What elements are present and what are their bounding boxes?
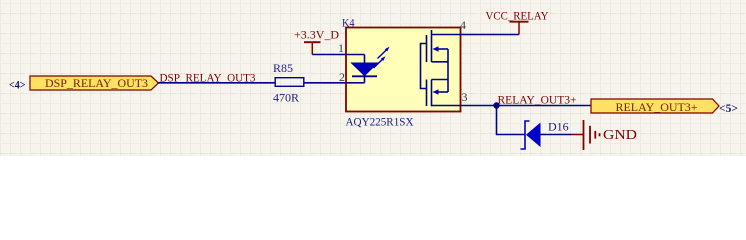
part number AQY225R1SX	[346, 115, 414, 129]
power port VCC_RELAY bar symbol	[510, 22, 529, 35]
junction node RELAY_OUT3+	[493, 102, 499, 108]
svg-text:1: 1	[338, 41, 344, 55]
ground label GND	[603, 128, 637, 143]
wire junction down to D16	[497, 106, 526, 135]
MOSFET top (output FET 1)	[427, 30, 449, 62]
svg-text:2: 2	[339, 70, 345, 84]
svg-text:+3.3V_D: +3.3V_D	[294, 28, 339, 42]
svg-text:RELAY_OUT3+: RELAY_OUT3+	[498, 93, 577, 107]
svg-text:3: 3	[462, 90, 468, 104]
svg-text:<5>: <5>	[719, 101, 738, 115]
pin number 2	[339, 70, 345, 84]
pin number 1	[338, 41, 344, 55]
node <4> cross-reference label	[9, 78, 26, 92]
ground symbol GND (bar style)	[584, 120, 600, 150]
wire R85 to K4 pin 2	[304, 82, 346, 84]
power port VCC_RELAY label	[486, 9, 549, 23]
resistor R85 value 470R	[273, 91, 299, 105]
LED emission arrows	[374, 47, 390, 68]
MOSFET bottom (output FET 2)	[427, 80, 449, 107]
gate bus bracket	[421, 44, 427, 89]
svg-text:R85: R85	[273, 61, 293, 75]
designator K4	[342, 16, 355, 30]
net label RELAY_OUT3+	[498, 93, 577, 107]
node <5> cross-reference label	[719, 101, 738, 115]
svg-text:AQY225R1SX: AQY225R1SX	[346, 115, 414, 129]
wire junction to right port	[497, 105, 592, 107]
resistor R85 designator	[273, 61, 293, 75]
net label DSP_RELAY_OUT3	[160, 71, 256, 85]
pin number 3	[462, 90, 468, 104]
designator D16	[548, 120, 569, 134]
LED D (input side of K4)	[346, 55, 378, 83]
pin 4 wire (K4 to VCC_RELAY)	[432, 34, 520, 36]
svg-text:<4>: <4>	[9, 78, 26, 92]
diode D16	[521, 121, 541, 149]
port DSP_RELAY_OUT3 (left harness port)	[30, 76, 159, 90]
background grid	[0, 0, 746, 156]
svg-text:K4: K4	[342, 16, 355, 30]
svg-text:4: 4	[460, 18, 466, 32]
common source column	[447, 49, 449, 92]
wire +3.3V_D to K4 pin 1	[312, 54, 346, 56]
svg-text:470R: 470R	[273, 91, 299, 105]
svg-text:DSP_RELAY_OUT3: DSP_RELAY_OUT3	[45, 76, 148, 90]
pin 3 wire (K4 to junction)	[432, 105, 497, 107]
svg-text:GND: GND	[603, 128, 637, 143]
pin number 4	[460, 18, 466, 32]
opto-relay U K4 body	[346, 28, 461, 112]
power port +3.3V_D label	[294, 28, 339, 42]
svg-text:D16: D16	[548, 120, 569, 134]
svg-text:VCC_RELAY: VCC_RELAY	[486, 9, 549, 23]
power port +3.3V_D bar symbol	[304, 42, 321, 54]
wire D16 to GND	[541, 134, 584, 136]
resistor R85 body	[275, 78, 304, 87]
svg-text:RELAY_OUT3+: RELAY_OUT3+	[616, 100, 698, 114]
port RELAY_OUT3+ (right harness port)	[591, 99, 719, 114]
wire port to R85	[158, 82, 276, 84]
